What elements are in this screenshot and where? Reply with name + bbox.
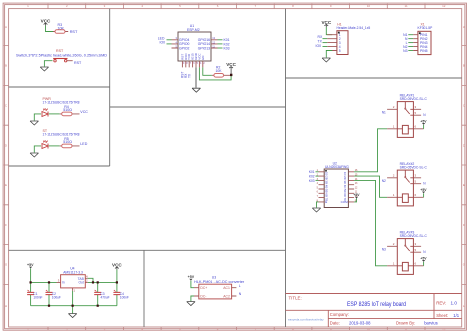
ESP U1 bottom pin numbers [183, 62, 205, 65]
svg-text:VCC: VCC [80, 110, 88, 114]
wire U4 GND to bottom rail [72, 291, 74, 306]
svg-text:B: B [5, 64, 7, 68]
wire U2 3C to relay3 coil [354, 180, 387, 265]
wire LED to R5 [49, 145, 60, 147]
svg-text:RELAY#2: RELAY#2 [400, 162, 415, 166]
title block [286, 294, 462, 328]
wire EN pin to R2 [203, 67, 212, 75]
resistor R4 [60, 105, 80, 116]
VCC power flag (ESP) [226, 62, 236, 74]
wire X1 pin3 L [408, 42, 413, 44]
wire GPIO14 to K02 net [218, 43, 223, 45]
ESP U1 left pin numbers [176, 36, 178, 48]
svg-text:+5V: +5V [353, 193, 360, 197]
terminal X1 body [418, 31, 431, 54]
driver U2 pin1 mark [325, 170, 327, 172]
wire GPIO16 to K01 net [218, 39, 223, 41]
wire H1 pin2 RX [323, 38, 328, 40]
svg-text:6B: 6B [325, 193, 329, 197]
wire H1 pin3 TX [323, 42, 328, 44]
svg-text:12: 12 [442, 327, 446, 331]
svg-text:KF301-5P: KF301-5P [418, 26, 434, 30]
driver U2 left pin numbers [317, 169, 319, 202]
terminal X1 pin names [420, 33, 428, 53]
svg-text:ESP-M2: ESP-M2 [187, 28, 200, 32]
header H1 pin numbers [339, 33, 341, 53]
VCC power flag (R3 pullup) [41, 19, 51, 26]
svg-text:N3: N3 [382, 247, 386, 251]
svg-text:Drawn By:: Drawn By: [396, 321, 415, 326]
capacitor C1 [27, 282, 42, 305]
wire bottom rail to ground [72, 306, 74, 314]
svg-text:H: H [5, 304, 7, 308]
svg-text:5B: 5B [325, 189, 329, 193]
VCC power flag (header H1) [321, 20, 331, 27]
svg-text:Company:: Company: [330, 312, 349, 317]
ESP U1 left pin names [179, 38, 189, 50]
header H1 pin stubs [327, 35, 337, 51]
LED PWR symbol [42, 108, 48, 116]
junction dots (regulator rails) [30, 281, 119, 307]
svg-text:RST: RST [74, 61, 82, 65]
svg-text:N3: N3 [403, 49, 407, 53]
svg-text:GPIO13: GPIO13 [198, 46, 210, 50]
regulator U4 pin numbers [58, 275, 88, 293]
regulator U4 pin stubs [57, 278, 88, 291]
wire X1 pin1 N1 [408, 34, 413, 36]
wire 3B to K03 [316, 179, 319, 181]
wire / ground (ST LED) [34, 146, 41, 153]
svg-text:100nF: 100nF [120, 295, 129, 299]
ground (regulator) [68, 314, 76, 318]
svg-text:E: E [5, 183, 7, 187]
converter U3 pin names [200, 286, 230, 298]
driver U2 left pin names [325, 172, 329, 204]
wire U2 2C to relay2 coil [354, 176, 387, 197]
svg-text:F: F [5, 223, 7, 227]
wire TAB to output rail [88, 278, 93, 282]
svg-text:A: A [463, 25, 465, 29]
resistor R5 [60, 137, 80, 148]
svg-text:IO0: IO0 [316, 44, 322, 48]
resistor R2 [212, 66, 231, 78]
svg-text:RX: RX [318, 35, 323, 39]
svg-text:REV:: REV: [436, 301, 446, 306]
title block texts [288, 295, 460, 325]
svg-text:Date:: Date: [330, 321, 340, 326]
svg-text:RELAY#1: RELAY#1 [400, 93, 415, 97]
pushbutton RST symbol [53, 59, 73, 62]
capacitor C2 [46, 282, 61, 305]
svg-text:B: B [463, 64, 465, 68]
wire VCC stub to output rail [116, 270, 118, 283]
svg-text:GPIO2: GPIO2 [179, 46, 189, 50]
svg-text:A: A [5, 25, 7, 29]
capacitor C4 [113, 282, 128, 305]
driver U2 right pin names [341, 172, 349, 204]
svg-text:F: F [463, 223, 465, 227]
svg-text:AC2: AC2 [223, 294, 230, 298]
header H1 pin1 mark [338, 32, 340, 34]
ESP module U1 body [178, 32, 211, 61]
ESP U1 right pin names [198, 38, 210, 50]
svg-text:RELAY#3: RELAY#3 [400, 230, 415, 234]
svg-text:5: 5 [339, 49, 341, 53]
+5V power flag (U2) [353, 193, 360, 198]
wire E pin to ground [317, 202, 319, 208]
svg-text:L: L [239, 284, 241, 288]
svg-text:HLK-PM01 - AC-DC converter: HLK-PM01 - AC-DC converter [194, 280, 245, 284]
ESP U1 bottom pin stubs [182, 61, 202, 67]
wire X1 pin5 N3 [408, 50, 413, 52]
svg-text:Sheet:: Sheet: [436, 313, 448, 318]
svg-text:4B: 4B [325, 185, 329, 189]
svg-text:12: 12 [442, 4, 446, 8]
wire VCC pin to VCC junction [199, 67, 231, 80]
svg-text:10K: 10K [216, 69, 223, 73]
svg-text:Out: Out [78, 281, 83, 285]
ground (U3) [187, 302, 195, 306]
svg-text:11: 11 [405, 327, 408, 331]
svg-text:+5V: +5V [188, 275, 195, 279]
bottom ground rail [31, 305, 117, 307]
ground (U2) [312, 208, 320, 212]
wire U2 1C to relay1 coil [354, 129, 387, 172]
svg-text:easyeda.com/barvius/relay: easyeda.com/barvius/relay [288, 317, 324, 321]
svg-text:RST: RST [70, 30, 78, 34]
header H1 body [337, 31, 348, 55]
wire +5V to input rail [31, 269, 57, 283]
ESP U1 right pin stubs [211, 40, 218, 48]
capacitor C3 [94, 282, 109, 305]
svg-text:K03: K03 [309, 179, 315, 183]
wire / ground (PWR LED) [34, 114, 41, 121]
svg-text:DC+: DC+ [200, 286, 207, 290]
svg-text:TX: TX [318, 40, 323, 44]
svg-text:+5V: +5V [27, 263, 34, 267]
junction (R2 / VCC) [230, 74, 232, 76]
svg-text:510Ω: 510Ω [63, 140, 72, 144]
wire COM pin to +5V [354, 199, 356, 202]
svg-text:11: 11 [405, 4, 408, 8]
+5V power flag (regulator input) [27, 263, 34, 269]
svg-text:ESP 8285 IoT relay board: ESP 8285 IoT relay board [347, 302, 406, 308]
svg-text:N2: N2 [382, 179, 386, 183]
wire switch left + ground lead [44, 61, 52, 67]
wire Out to VCC rail [88, 281, 117, 283]
svg-text:AC1: AC1 [223, 286, 230, 290]
ESP U1 left pin stubs [172, 40, 179, 48]
driver U2 body [324, 169, 348, 208]
svg-text:17-11ZSUBC/S3175/TR8: 17-11ZSUBC/S3175/TR8 [43, 101, 80, 105]
wire GPIO0 to IO0 net [167, 43, 172, 45]
svg-text:K03: K03 [224, 46, 230, 50]
converter U3 body [199, 284, 232, 299]
driver U2 left pin stubs [319, 172, 325, 202]
relay RELAY#3 [382, 230, 428, 274]
svg-text:RST: RST [56, 49, 64, 53]
wire 2B to K02 [316, 175, 319, 177]
svg-text:2019-03-08: 2019-03-08 [349, 321, 371, 326]
svg-text:Switch,3*6*2.5Plastic head,whi: Switch,3*6*2.5Plastic head,white,260G, 0… [16, 53, 108, 57]
svg-text:PIN5: PIN5 [420, 49, 428, 53]
svg-text:N1: N1 [382, 110, 386, 114]
wire H1 pin5 to ground [326, 51, 332, 58]
ESP U1 bottom pin names (inside, rotated) [180, 52, 204, 60]
VCC power flag (regulator output) [112, 263, 122, 270]
svg-text:E: E [463, 183, 465, 187]
LED ST symbol [42, 140, 48, 148]
svg-text:10: 10 [367, 4, 371, 8]
svg-text:EN: EN [201, 56, 205, 60]
svg-text:In: In [62, 281, 65, 285]
regulator U4 body [61, 275, 86, 288]
terminal X1 pin1 mark [419, 32, 421, 34]
svg-text:DC-: DC- [200, 294, 206, 298]
svg-text:1B: 1B [325, 172, 329, 176]
svg-text:E: E [325, 200, 327, 204]
svg-text:Header-Male-2.54_1x5: Header-Male-2.54_1x5 [337, 26, 371, 30]
wire LED to R4 [49, 113, 60, 115]
wire X1 pin2 N [408, 38, 413, 40]
converter U3 pin stubs [194, 288, 236, 296]
driver U2 right pin stubs [348, 172, 354, 202]
wire GPIO4 to LED net [167, 39, 172, 41]
driver U2 right pin numbers [355, 169, 358, 202]
regulator U4 pin names [62, 277, 85, 285]
wire VCC to R3 [46, 26, 54, 32]
svg-text:AMS1117-3.3: AMS1117-3.3 [63, 271, 83, 275]
ground (ESP) [192, 88, 200, 92]
wire GND pin down [195, 67, 197, 87]
ground (RST switch) [40, 67, 48, 71]
wire DC- to ground [191, 296, 194, 301]
ESP U1 right pin numbers [212, 36, 215, 48]
relay RELAY#2 [382, 162, 428, 206]
terminal X1 pin stubs [413, 35, 418, 51]
svg-text:IO0: IO0 [160, 41, 166, 45]
svg-text:100nF: 100nF [33, 295, 42, 299]
svg-text:1.0: 1.0 [451, 301, 458, 306]
wire +5V to DC+ [191, 281, 194, 288]
svg-text:3B: 3B [325, 180, 329, 184]
ESP U1 bottom pin names (rotated) [181, 72, 192, 78]
wire X1 pin4 N2 [408, 46, 413, 48]
svg-text:barvius: barvius [424, 321, 438, 326]
relay RELAY#1 [382, 93, 428, 137]
wire VCC to H1 pin1 [326, 27, 332, 35]
svg-text:COM: COM [341, 200, 349, 204]
resistor R3 [53, 23, 68, 33]
svg-text:LED: LED [80, 142, 87, 146]
svg-text:TITLE:: TITLE: [289, 295, 302, 300]
svg-text:H: H [463, 304, 465, 308]
wire GPIO13 to K03 net [218, 47, 223, 49]
svg-text:10: 10 [367, 327, 371, 331]
svg-text:17-11ZSUBC/S3175/TR8: 17-11ZSUBC/S3175/TR8 [43, 133, 80, 137]
wire H1 pin4 IO0 [323, 46, 328, 48]
ground (H1) [322, 58, 330, 62]
svg-text:100uF: 100uF [52, 295, 61, 299]
svg-text:470uF: 470uF [101, 295, 110, 299]
wire 1B to K01 [316, 171, 319, 173]
+5V power flag (U3) [188, 275, 195, 280]
svg-text:1/1: 1/1 [453, 313, 459, 318]
svg-text:2B: 2B [325, 176, 329, 180]
